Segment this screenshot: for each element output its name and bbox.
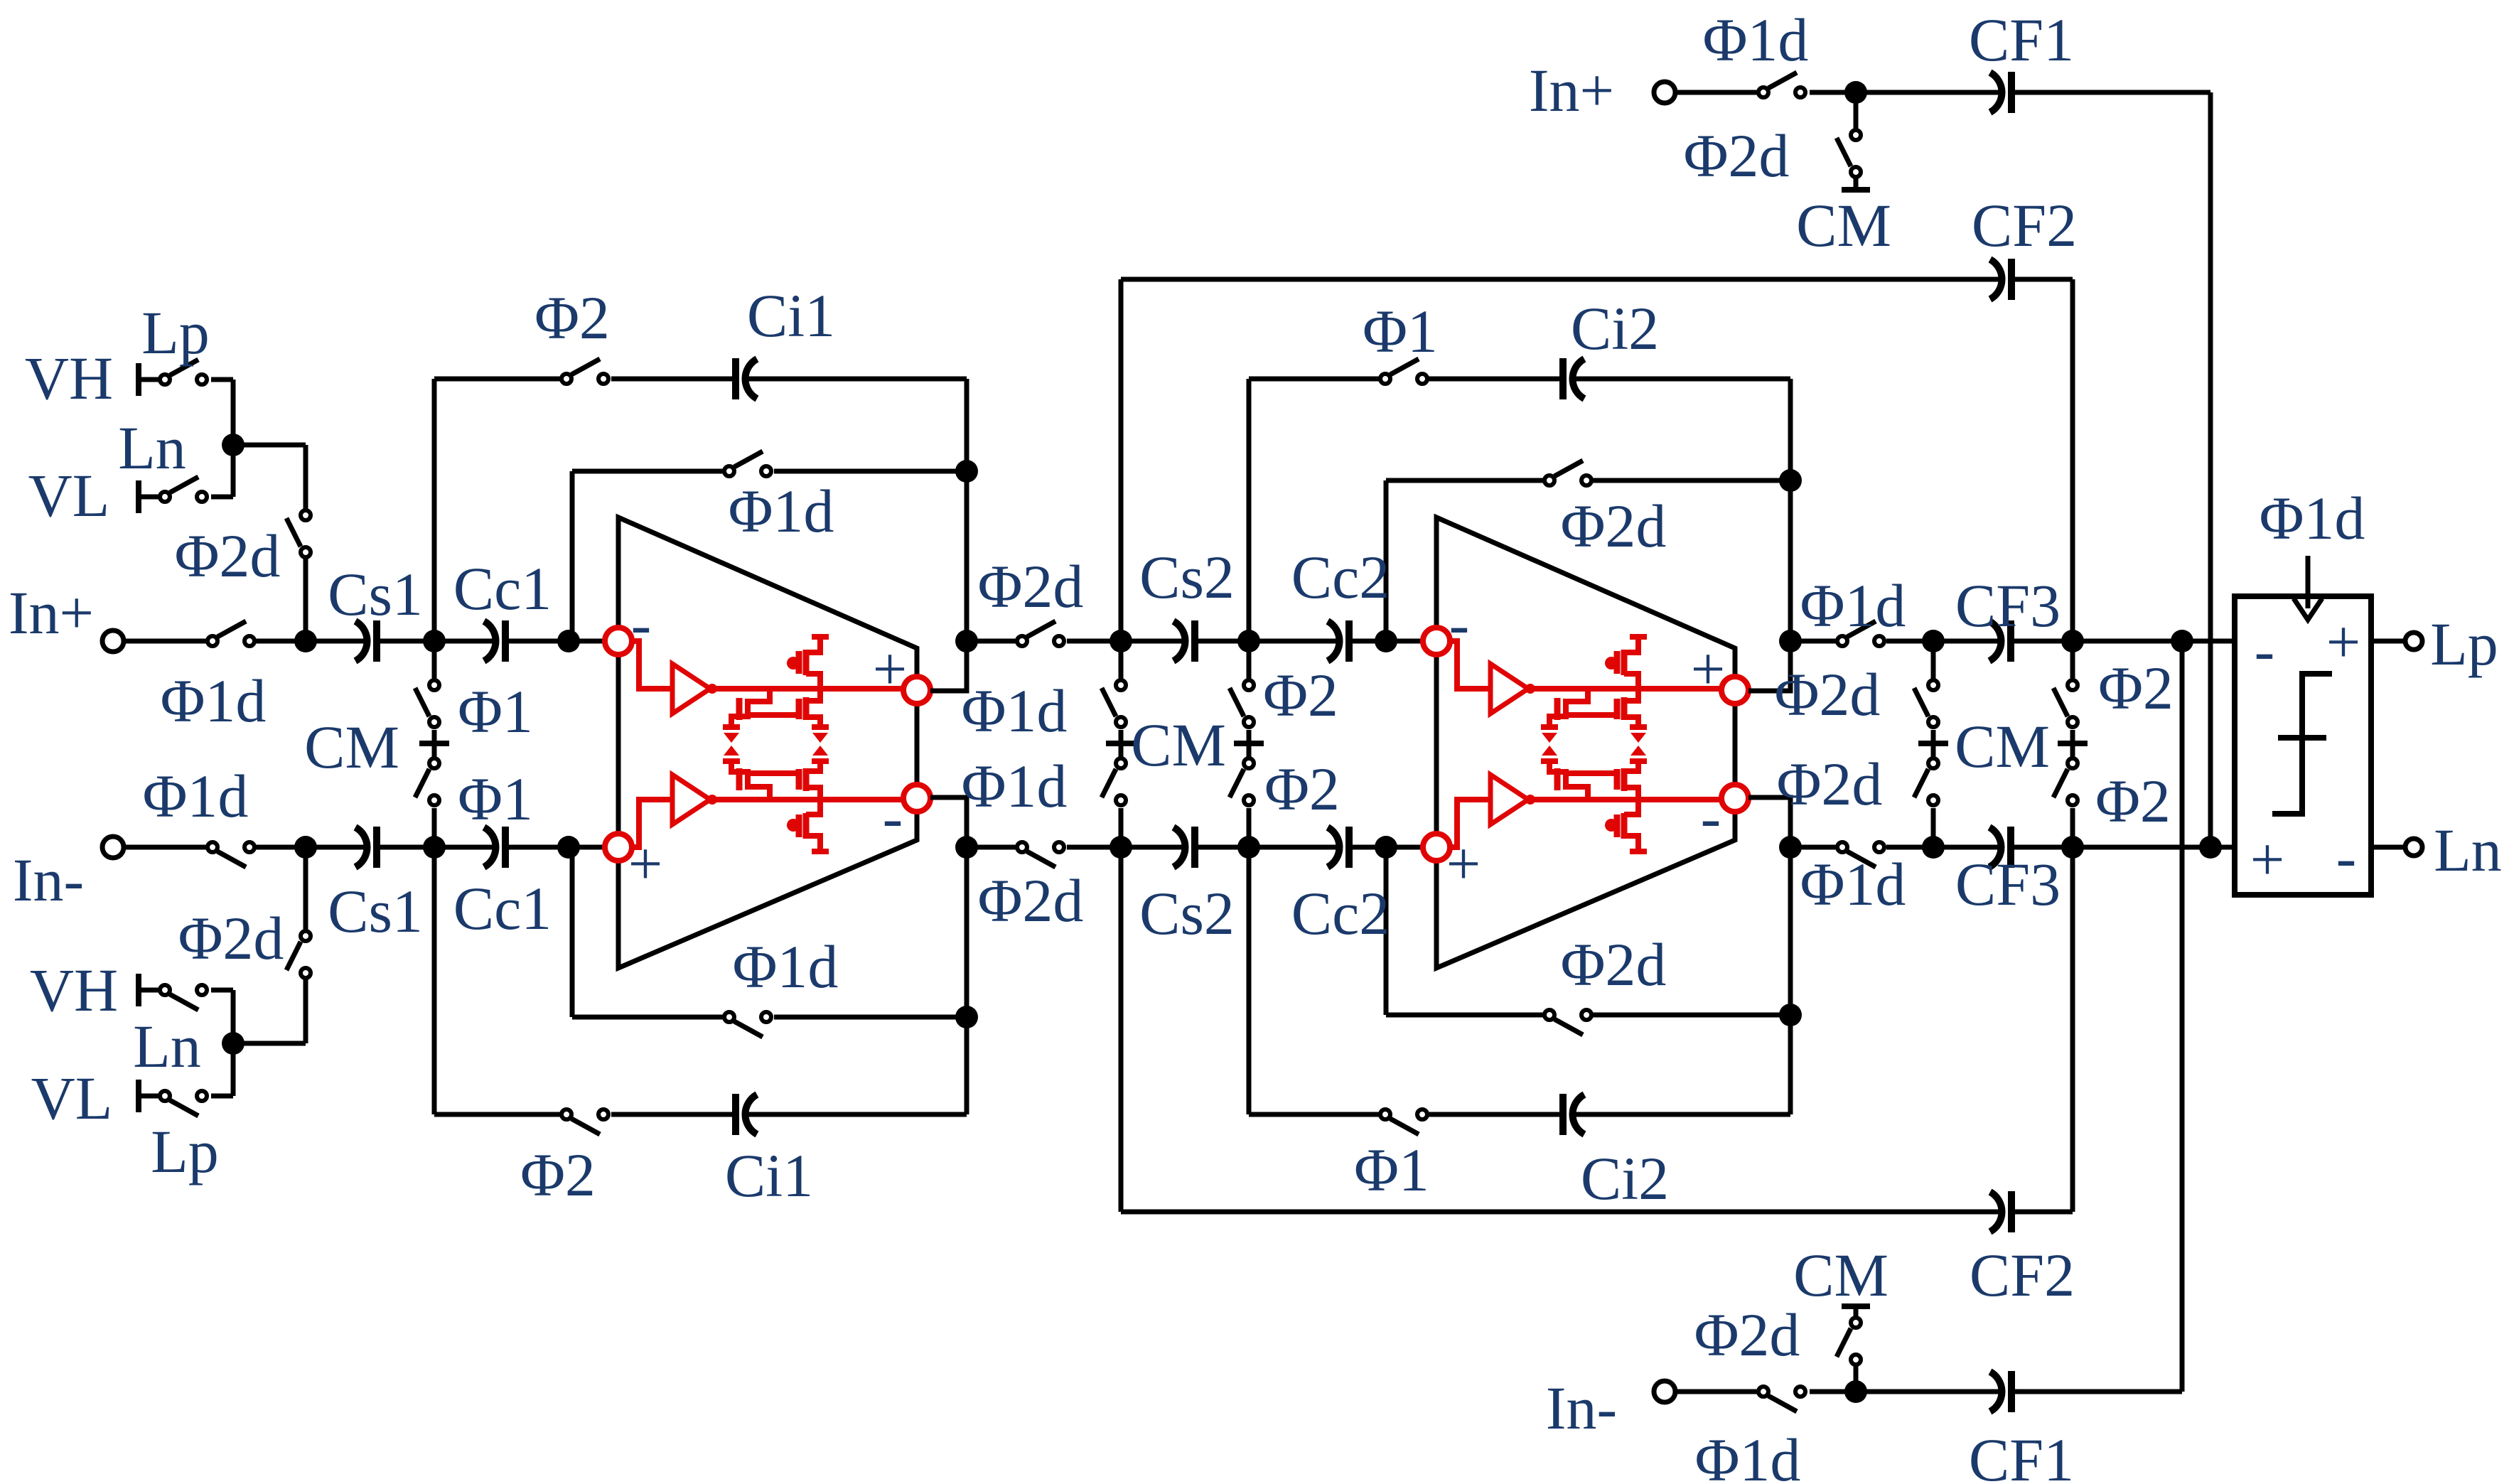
wire <box>211 377 233 382</box>
U2B Q2 drain <box>1624 787 1638 800</box>
wire <box>1677 90 1757 95</box>
svg-text:Cc2: Cc2 <box>1291 879 1390 947</box>
wire <box>1931 641 1936 679</box>
wire <box>1247 746 1252 757</box>
terminal Ln <box>2405 839 2422 856</box>
U1B Q2 source <box>806 763 820 771</box>
wire <box>434 1112 560 1117</box>
node <box>1844 1380 1867 1403</box>
node <box>2199 836 2222 859</box>
op-amp U2 negative output <box>1721 785 1748 812</box>
wire <box>570 847 575 1017</box>
capacitor CF1 bottom <box>1990 1371 2011 1412</box>
switch Φ1d lower shunt switch <box>1102 758 1126 805</box>
switch Lp select bottom <box>160 1091 207 1116</box>
CM terminal bar <box>419 741 449 746</box>
U1A ground 2 <box>812 727 829 743</box>
node <box>2061 836 2084 859</box>
wire <box>2070 279 2075 641</box>
wire <box>231 445 236 497</box>
svg-text:CF1: CF1 <box>1969 1426 2074 1484</box>
op-amp U1 positive output <box>903 677 930 704</box>
switch Φ2 top <box>562 359 608 384</box>
switch Ln select top <box>160 477 207 502</box>
op-amp U2 body <box>1436 517 1735 968</box>
U1B input wire <box>632 800 671 847</box>
wire <box>1119 808 1124 847</box>
wire <box>256 639 365 644</box>
svg-text:In+: In+ <box>9 579 94 647</box>
capacitor Cc2 (B) <box>1328 827 1349 868</box>
U1A Q3 drain <box>806 674 820 689</box>
wire <box>1349 639 1423 644</box>
node VH/VL junction top <box>222 434 245 456</box>
U1A Q1 gate <box>736 698 743 720</box>
svg-text:-: - <box>1449 590 1470 658</box>
U1B transistor Q1 <box>731 763 770 800</box>
terminal Lp <box>2405 633 2422 650</box>
wire <box>572 469 723 474</box>
wire <box>2070 847 2075 1212</box>
wire <box>746 1112 967 1117</box>
wire <box>1349 845 1423 850</box>
CM terminal bar <box>2058 741 2088 746</box>
node <box>2171 630 2193 652</box>
U1A node <box>707 684 717 694</box>
U1B output wire <box>712 797 904 802</box>
op-amp U1 inverting input <box>605 628 632 655</box>
capacitor Cc1 (B) <box>484 827 505 868</box>
wire U1 output- step <box>930 797 967 847</box>
wire <box>1788 847 1793 1015</box>
wire <box>2011 639 2235 644</box>
node <box>1779 469 1802 492</box>
terminal In+ top <box>1654 82 1675 103</box>
U2B transistor Q3 source <box>1624 836 1638 851</box>
arrowhead <box>2294 598 2322 620</box>
U1A transistor Q3 source <box>806 637 820 652</box>
capacitor Ci2 bottom <box>1563 1094 1584 1135</box>
wire <box>1788 480 1793 641</box>
capacitor CF3 (B) <box>1989 827 2011 868</box>
svg-text:Φ1d: Φ1d <box>729 477 834 545</box>
svg-text:Φ1: Φ1 <box>458 677 533 746</box>
wire <box>2371 845 2405 850</box>
U1B gate link <box>748 770 799 776</box>
U1B Q3 channel <box>803 813 810 839</box>
svg-text:Φ1d: Φ1d <box>962 677 1068 745</box>
terminal VH <box>136 363 141 396</box>
U2B Q3 gate node <box>1605 819 1618 832</box>
node <box>1110 630 1132 652</box>
wire <box>611 1112 736 1117</box>
svg-text:Φ2: Φ2 <box>1264 755 1340 823</box>
U2B Q3 gate <box>1614 814 1621 837</box>
wire <box>1593 478 1790 483</box>
U2B ground 2 <box>1630 746 1647 761</box>
U2B buffer triangle <box>1490 775 1528 824</box>
op-amp U1 body <box>618 517 917 968</box>
wire <box>2011 1389 2182 1394</box>
wire <box>2070 808 2075 847</box>
svg-text:In-: In- <box>1546 1374 1617 1442</box>
wire <box>231 990 236 1043</box>
wire <box>125 639 206 644</box>
svg-text:+: + <box>873 635 908 703</box>
U1A Q3 channel <box>803 650 810 675</box>
node <box>955 630 978 652</box>
wire U2 output+ step <box>1748 641 1790 691</box>
svg-text:CM: CM <box>1793 1241 1889 1309</box>
switch Φ2d series A <box>1017 621 1064 646</box>
U2A output wire <box>1530 686 1722 692</box>
switch Φ1d feedback top <box>724 451 771 476</box>
node <box>1922 836 1945 859</box>
U2B Q2 channel <box>1621 768 1628 791</box>
wire <box>1854 1308 1859 1316</box>
switch Φ2d shunt top branch <box>1837 130 1861 177</box>
wire <box>1677 1389 1757 1394</box>
svg-text:CM: CM <box>1796 191 1891 259</box>
svg-text:CF2: CF2 <box>1972 191 2077 259</box>
switch Φ1d series right A <box>1837 621 1884 646</box>
capacitor Cs2 (A) <box>1173 620 1195 662</box>
switch Φ1d bottom branch <box>1758 1387 1805 1412</box>
wire <box>1810 90 2000 95</box>
wire <box>231 380 236 445</box>
switch Φ2 upper shunt switch <box>1230 680 1254 727</box>
wire <box>1247 847 1252 1114</box>
terminal In- bottom <box>1654 1381 1675 1402</box>
wire <box>2070 746 2075 757</box>
wire <box>1249 1112 1379 1117</box>
wire <box>1119 641 1124 679</box>
wire <box>1573 1112 1790 1117</box>
svg-text:Φ2: Φ2 <box>2098 654 2174 722</box>
svg-text:+: + <box>1691 635 1726 703</box>
terminal VH bottom <box>136 974 141 1006</box>
wire <box>2011 277 2073 282</box>
svg-text:Ln: Ln <box>2434 816 2502 884</box>
U1B ground 1 <box>723 746 740 761</box>
wire <box>432 379 437 641</box>
switch Φ2d feedback bottom <box>1544 1010 1591 1035</box>
switch Φ2d series B <box>1017 842 1064 867</box>
wire <box>1386 478 1543 483</box>
svg-text:Φ2: Φ2 <box>534 284 610 352</box>
wire <box>1119 279 1124 641</box>
U2A transistor Q3 source <box>1624 637 1638 652</box>
wire <box>1121 277 2000 282</box>
wire <box>505 845 605 850</box>
U1A Q3 gate node <box>787 657 800 670</box>
svg-text:VL: VL <box>31 1064 113 1132</box>
capacitor Cc1 (A) <box>484 620 505 662</box>
node <box>1779 630 1802 652</box>
svg-text:Φ1d: Φ1d <box>2260 484 2365 552</box>
switch Φ1d input A <box>208 621 254 646</box>
svg-text:Φ2d: Φ2d <box>175 522 281 590</box>
wire <box>303 445 308 509</box>
svg-text:CM: CM <box>1955 712 2050 780</box>
switch Φ1 bottom <box>1380 1109 1427 1134</box>
svg-text:VL: VL <box>28 461 110 529</box>
capacitor Cs1 (A) <box>355 620 377 662</box>
U2B Q2 source <box>1624 763 1638 771</box>
svg-text:Φ1: Φ1 <box>458 765 533 833</box>
wire <box>1384 847 1389 1015</box>
switch Φ1 lower shunt switch <box>415 758 439 805</box>
wire <box>1790 845 1836 850</box>
svg-text:+: + <box>2250 825 2285 893</box>
node <box>2061 630 2084 652</box>
U2B Q3 drain <box>1624 800 1638 814</box>
U2A ground 1 <box>1541 727 1558 743</box>
node <box>1237 630 1260 652</box>
U1A Q3 gate <box>796 651 802 674</box>
svg-text:Φ1d: Φ1d <box>1800 571 1906 640</box>
CM terminal bar <box>1106 741 1136 746</box>
svg-text:CF3: CF3 <box>1955 850 2061 918</box>
wire <box>965 379 969 471</box>
op-amp U1 negative output <box>903 785 930 812</box>
node <box>557 836 580 859</box>
switch Φ2d feedback top <box>1544 461 1591 485</box>
node <box>423 630 446 652</box>
switch Φ2 lower shunt switch <box>1230 758 1254 805</box>
wire <box>1854 178 1859 188</box>
wire <box>2371 639 2405 644</box>
wire <box>432 641 437 679</box>
CM terminal bar <box>1918 741 1948 746</box>
node <box>1237 836 1260 859</box>
U1B Q1 gate <box>736 768 743 790</box>
svg-text:Φ2d: Φ2d <box>1775 660 1881 728</box>
U1A output wire <box>712 686 904 692</box>
switch Φ2d shunt top-left <box>286 510 311 557</box>
wire <box>570 471 575 641</box>
switch Φ2 lower shunt switch <box>2053 758 2078 805</box>
CM terminal bar bottom <box>1842 1303 1870 1309</box>
wire <box>2011 845 2235 850</box>
wire <box>1573 377 1790 382</box>
wire <box>1067 845 1183 850</box>
svg-text:Ln: Ln <box>133 1012 201 1080</box>
op-amp U2 positive output <box>1721 677 1748 704</box>
svg-text:Φ1d: Φ1d <box>161 667 267 735</box>
U2A transistor Q2 gate <box>1614 699 1621 719</box>
svg-text:Φ1: Φ1 <box>1354 1136 1429 1204</box>
op-amp U1 non-inverting input <box>605 834 632 861</box>
U2A Q3 gate node <box>1605 657 1618 670</box>
comparator U3 body <box>2235 596 2371 895</box>
wire <box>432 847 437 1114</box>
U2B input wire <box>1450 800 1489 847</box>
svg-text:Φ1d: Φ1d <box>1695 1426 1801 1484</box>
hysteresis symbol <box>2272 674 2332 814</box>
capacitor Ci2 top <box>1563 358 1584 399</box>
wire <box>233 1041 306 1046</box>
node <box>423 836 446 859</box>
wire <box>1931 808 1936 847</box>
U2A Q3 gate <box>1614 651 1621 674</box>
switch Φ2d upper shunt switch <box>1914 680 1938 727</box>
capacitor CF2 top <box>1990 259 2011 300</box>
switch Φ1d input B <box>208 842 254 867</box>
U1A Q2 drain <box>806 689 820 701</box>
wire <box>572 1015 723 1020</box>
wire <box>1119 746 1124 757</box>
node <box>1779 836 1802 859</box>
wire <box>2208 92 2213 847</box>
wire <box>1384 480 1389 641</box>
U1B node <box>707 795 717 805</box>
switch Φ1d feedback bottom <box>724 1012 771 1037</box>
wire <box>139 1094 159 1099</box>
svg-text:CF2: CF2 <box>1970 1241 2075 1309</box>
U2A input wire <box>1450 641 1489 689</box>
svg-text:Ci1: Ci1 <box>725 1141 813 1210</box>
U1B Q3 gate <box>796 814 802 837</box>
U1B Q2 drain <box>806 787 820 800</box>
capacitor Cs1 (B) <box>355 827 377 868</box>
U2A Q1 gate <box>1554 698 1561 720</box>
switch Lp select top <box>160 360 207 385</box>
wire <box>1386 1013 1543 1018</box>
wire <box>303 979 308 1043</box>
node <box>955 460 978 483</box>
switch Φ2 bottom <box>562 1109 608 1134</box>
U2B gate link <box>1566 770 1617 776</box>
wire <box>231 1043 236 1096</box>
svg-text:-: - <box>631 590 652 658</box>
switch Φ2 upper shunt switch <box>2053 680 2078 727</box>
svg-text:Φ2d: Φ2d <box>978 552 1084 620</box>
wire <box>211 495 233 500</box>
node <box>557 630 580 652</box>
wire <box>432 746 437 757</box>
svg-text:-: - <box>883 783 903 851</box>
svg-text:Φ1d: Φ1d <box>1703 6 1809 74</box>
wire <box>774 1015 967 1020</box>
svg-text:+: + <box>2326 608 2361 676</box>
wire <box>432 808 437 847</box>
svg-text:VH: VH <box>25 344 113 412</box>
svg-text:Ci1: Ci1 <box>747 281 835 350</box>
wire <box>1788 379 1793 480</box>
switch Φ2d shunt bottom branch <box>1837 1318 1861 1365</box>
svg-text:Φ2: Φ2 <box>2095 767 2171 835</box>
wire <box>2180 641 2185 1392</box>
svg-text:Cc1: Cc1 <box>453 874 552 942</box>
node <box>955 1006 978 1028</box>
svg-text:VH: VH <box>30 956 118 1024</box>
svg-text:Φ2d: Φ2d <box>1694 1301 1800 1369</box>
wire <box>965 471 969 641</box>
svg-text:CM: CM <box>1131 711 1226 779</box>
svg-text:Φ2: Φ2 <box>1263 661 1338 729</box>
wire <box>1788 1015 1793 1114</box>
svg-text:CF3: CF3 <box>1955 571 2061 640</box>
U2A transistor Q1 <box>1549 689 1588 726</box>
U1A input wire <box>632 641 671 689</box>
svg-text:Φ2: Φ2 <box>520 1141 596 1209</box>
wire <box>1119 730 1124 741</box>
wire <box>1247 379 1252 641</box>
svg-text:Cs1: Cs1 <box>328 877 423 945</box>
wire <box>1247 641 1252 679</box>
svg-text:Lp: Lp <box>141 299 210 367</box>
U2A Q2 drain <box>1624 689 1638 701</box>
hysteresis threshold line <box>2278 735 2326 741</box>
wire <box>1119 847 1124 1212</box>
capacitor CF3 (A) <box>1989 620 2011 662</box>
wire <box>1931 746 1936 757</box>
U1B Q2 channel <box>803 768 810 791</box>
node <box>1375 630 1397 652</box>
U2A Q3 drain <box>1624 674 1638 689</box>
wire Φ1d clock into comparator <box>2306 556 2311 608</box>
capacitor Cs2 (B) <box>1173 827 1195 868</box>
U1A buffer triangle <box>672 664 710 714</box>
wire <box>2070 641 2075 679</box>
wire <box>1195 639 1338 644</box>
node <box>294 630 317 652</box>
wire <box>303 847 308 930</box>
svg-text:-: - <box>2336 823 2357 891</box>
U1B Q3 gate node <box>787 819 800 832</box>
svg-text:Φ2d: Φ2d <box>978 866 1084 935</box>
U2A buffer triangle <box>1490 664 1528 714</box>
capacitor Cc2 (A) <box>1328 620 1349 662</box>
capacitor CF1 top <box>1990 72 2011 113</box>
wire <box>2011 1210 2073 1215</box>
svg-text:Φ1: Φ1 <box>1363 297 1438 365</box>
U1A transistor Q2 gate <box>796 699 802 719</box>
svg-text:Ci2: Ci2 <box>1581 1144 1669 1213</box>
U1B Q3 drain <box>806 800 820 814</box>
wire <box>1247 730 1252 741</box>
wire <box>377 845 494 850</box>
svg-text:Φ1d: Φ1d <box>962 752 1068 820</box>
U1B supply tick <box>812 849 829 854</box>
node <box>1922 630 1945 652</box>
svg-text:Φ2d: Φ2d <box>1684 122 1790 190</box>
U1B transistor Q2 gate <box>796 769 802 790</box>
wire <box>965 1017 969 1114</box>
wire <box>1810 1389 2000 1394</box>
node VH/VL junction bottom <box>222 1032 245 1055</box>
wire <box>139 988 159 993</box>
switch Ln select bottom <box>160 985 207 1010</box>
U2B output wire <box>1530 797 1722 802</box>
wire <box>967 639 1016 644</box>
wire <box>1429 1112 1563 1117</box>
node <box>1375 836 1397 859</box>
wire U2 output- step <box>1748 797 1790 847</box>
U1B ground 2 <box>812 746 829 761</box>
wire <box>1247 808 1252 847</box>
wire <box>1886 845 1999 850</box>
U2B transistor Q2 gate <box>1614 769 1621 790</box>
wire <box>774 469 967 474</box>
terminal VL <box>136 480 141 513</box>
wire <box>1067 639 1183 644</box>
capacitor Ci1 top <box>736 358 757 399</box>
wire <box>746 377 967 382</box>
U2A Q2 channel <box>1621 697 1628 720</box>
U2B transistor Q1 <box>1549 763 1588 800</box>
